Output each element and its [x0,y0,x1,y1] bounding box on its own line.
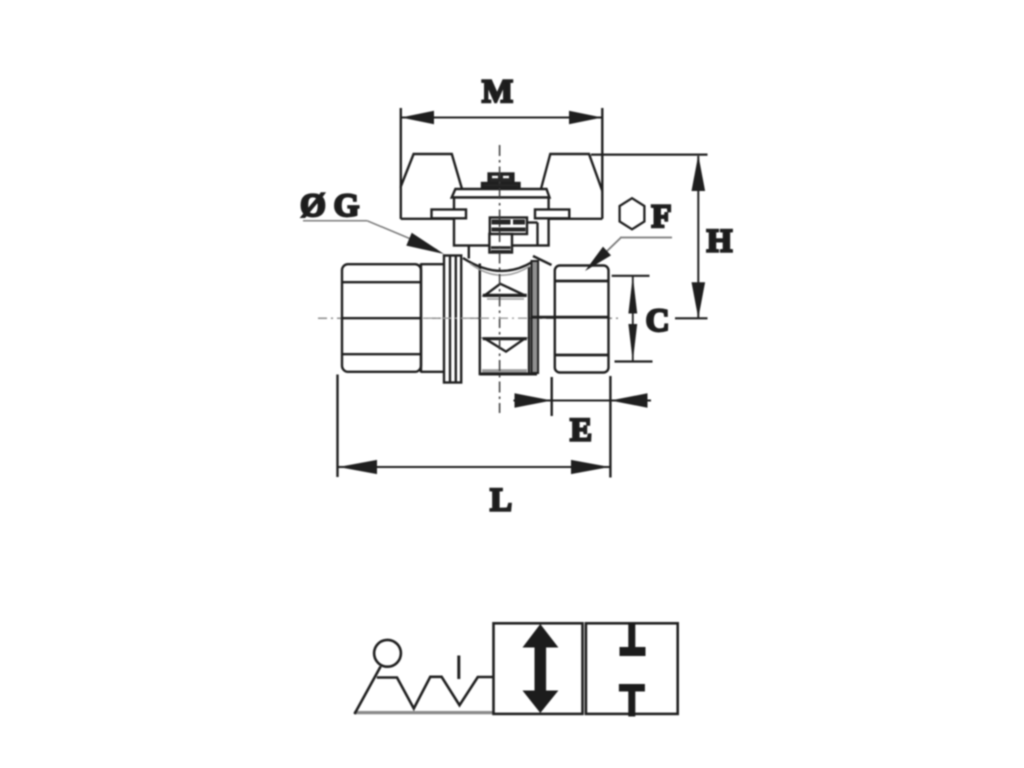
dimension E [514,376,652,478]
dimension C [612,276,653,362]
svg-text:H: H [707,224,733,260]
flow arrow down (triangle) [483,339,527,352]
schematic: lever line [355,667,381,715]
handle left wing [401,154,463,219]
dimension H [591,155,708,319]
schematic: spring / detent polyline [377,677,493,709]
right hex union nut [531,266,609,373]
valve body center [480,264,537,375]
schematic: left valve box [494,623,583,714]
schematic: right valve box [586,623,678,714]
stem cap (dark) [482,174,520,188]
schematic: detent pin [457,656,460,680]
schematic: blocked port bottom T [619,684,645,717]
bonnet top plate [452,189,550,198]
flange with vertical lines [444,256,461,383]
schematic: double-headed arrow [523,624,559,713]
bonnet side tab left [432,210,467,219]
collar between body and right nut [532,261,539,373]
washer between hex and flange [421,264,444,372]
svg-text:C: C [646,303,670,339]
packing stack upper [490,218,538,245]
label F with hexagon icon and leader [620,198,645,229]
svg-text:E: E [570,413,592,449]
svg-text:G: G [334,188,360,224]
vertical centerline [499,145,501,413]
packing stack lower [489,234,512,253]
bonnet side tab right [535,210,569,219]
flow arrow up (triangle) [483,284,527,299]
left hex end cap [341,263,421,372]
neck arc (top of body) [463,247,552,276]
horizontal centerline [318,317,622,319]
svg-text:Ø: Ø [300,188,326,224]
dimension L [338,375,610,478]
svg-text:M: M [482,74,513,110]
svg-text:F: F [651,199,671,235]
centerline over body [423,317,530,319]
svg-text:L: L [490,483,512,519]
schematic: blocked port top T [620,623,646,656]
schematic: ground line [354,711,493,714]
dimension M [401,108,603,192]
bonnet body [454,198,549,246]
handle right wing [541,154,603,219]
schematic: roller circle [374,640,401,667]
